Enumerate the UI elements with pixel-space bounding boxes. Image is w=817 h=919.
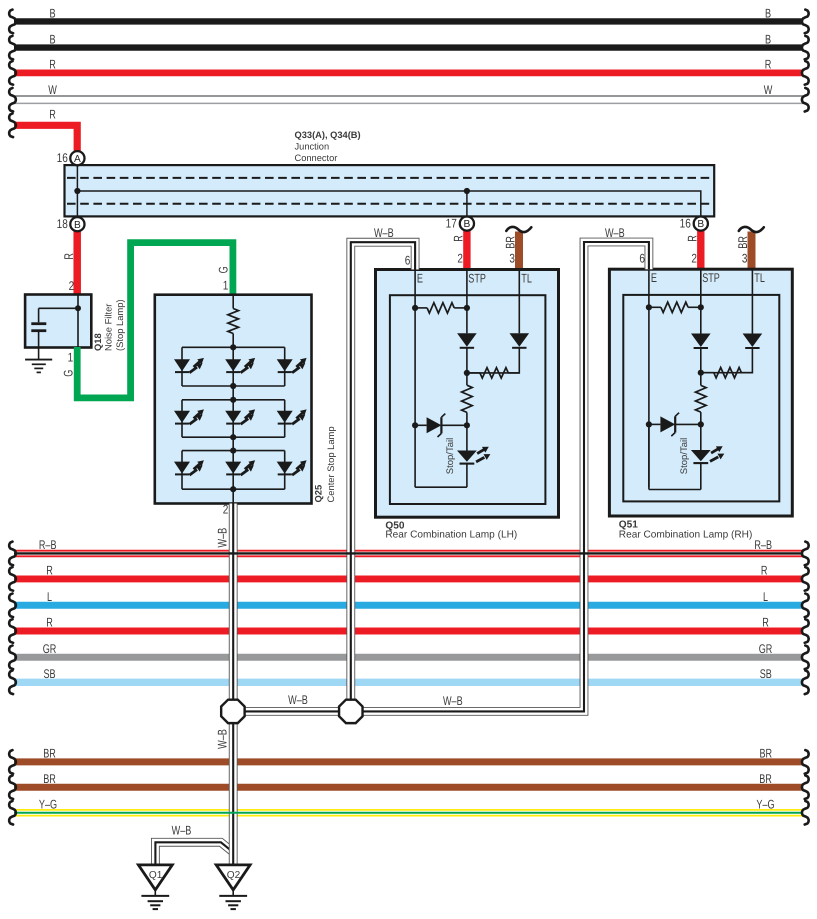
svg-text:R: R bbox=[62, 253, 76, 260]
svg-text:W: W bbox=[48, 83, 57, 97]
svg-text:Stop/Tail: Stop/Tail bbox=[679, 438, 690, 474]
svg-text:BR: BR bbox=[736, 236, 750, 249]
svg-text:BR: BR bbox=[760, 747, 773, 761]
svg-text:E: E bbox=[417, 271, 423, 285]
svg-text:3: 3 bbox=[509, 252, 515, 266]
svg-text:W–B: W–B bbox=[216, 528, 230, 548]
svg-text:R–B: R–B bbox=[39, 538, 57, 552]
svg-text:2: 2 bbox=[69, 279, 75, 293]
svg-text:Q18: Q18 bbox=[92, 333, 103, 351]
svg-text:16: 16 bbox=[680, 217, 691, 231]
svg-text:STP: STP bbox=[702, 271, 720, 285]
svg-text:R: R bbox=[762, 616, 769, 630]
svg-text:Q1: Q1 bbox=[149, 870, 163, 881]
svg-text:Y–G: Y–G bbox=[39, 797, 57, 811]
svg-text:Center Stop Lamp: Center Stop Lamp bbox=[325, 426, 336, 502]
svg-text:Connector: Connector bbox=[295, 153, 338, 163]
svg-text:R: R bbox=[49, 58, 56, 72]
svg-text:G: G bbox=[62, 370, 76, 377]
svg-text:TL: TL bbox=[521, 271, 532, 285]
svg-text:Rear Combination Lamp (LH): Rear Combination Lamp (LH) bbox=[385, 529, 517, 540]
svg-text:Noise Filter: Noise Filter bbox=[103, 304, 114, 351]
svg-text:6: 6 bbox=[639, 252, 645, 266]
svg-text:G: G bbox=[216, 266, 230, 273]
svg-text:R: R bbox=[761, 564, 768, 578]
svg-text:B: B bbox=[765, 7, 771, 21]
svg-text:R: R bbox=[685, 235, 699, 242]
svg-text:B: B bbox=[49, 33, 55, 47]
svg-text:Rear Combination Lamp (RH): Rear Combination Lamp (RH) bbox=[619, 529, 753, 540]
svg-text:Q25: Q25 bbox=[313, 485, 324, 503]
svg-text:GR: GR bbox=[759, 642, 773, 656]
svg-text:1: 1 bbox=[223, 279, 229, 293]
svg-text:BR: BR bbox=[43, 772, 56, 786]
svg-text:BR: BR bbox=[759, 772, 772, 786]
svg-text:R–B: R–B bbox=[754, 538, 772, 552]
svg-text:GR: GR bbox=[43, 642, 57, 656]
svg-text:1: 1 bbox=[68, 351, 74, 365]
svg-text:B: B bbox=[74, 220, 81, 231]
svg-text:L: L bbox=[763, 590, 768, 604]
svg-text:SB: SB bbox=[760, 667, 772, 681]
svg-text:B: B bbox=[464, 219, 471, 230]
svg-text:2: 2 bbox=[457, 252, 463, 266]
svg-text:W–B: W–B bbox=[172, 824, 192, 838]
svg-text:3: 3 bbox=[742, 252, 748, 266]
svg-text:L: L bbox=[47, 590, 52, 604]
svg-text:W–B: W–B bbox=[605, 226, 625, 240]
svg-text:R: R bbox=[765, 58, 772, 72]
svg-text:R: R bbox=[46, 564, 53, 578]
svg-text:(Stop Lamp): (Stop Lamp) bbox=[114, 299, 125, 351]
svg-text:SB: SB bbox=[43, 667, 55, 681]
svg-text:BR: BR bbox=[504, 236, 518, 249]
svg-text:W: W bbox=[764, 83, 773, 97]
svg-text:W–B: W–B bbox=[443, 694, 463, 708]
svg-text:R: R bbox=[451, 235, 465, 242]
svg-text:Stop/Tail: Stop/Tail bbox=[445, 438, 456, 474]
svg-text:W–B: W–B bbox=[374, 226, 394, 240]
svg-text:E: E bbox=[651, 271, 657, 285]
svg-text:BR: BR bbox=[43, 747, 56, 761]
svg-text:Q33(A), Q34(B): Q33(A), Q34(B) bbox=[295, 130, 361, 140]
svg-text:Junction: Junction bbox=[295, 142, 330, 152]
svg-text:17: 17 bbox=[446, 217, 457, 231]
svg-text:TL: TL bbox=[754, 271, 765, 285]
svg-text:6: 6 bbox=[405, 254, 411, 268]
svg-text:W–B: W–B bbox=[288, 693, 308, 707]
svg-text:18: 18 bbox=[57, 217, 68, 231]
svg-text:Q2: Q2 bbox=[227, 870, 241, 881]
svg-text:R: R bbox=[49, 107, 56, 121]
svg-text:A: A bbox=[74, 154, 81, 165]
svg-text:B: B bbox=[49, 7, 55, 21]
svg-text:B: B bbox=[765, 33, 771, 47]
svg-text:Y–G: Y–G bbox=[756, 797, 774, 811]
svg-text:B: B bbox=[697, 219, 704, 230]
svg-text:W–B: W–B bbox=[216, 729, 230, 749]
svg-text:2: 2 bbox=[691, 252, 697, 266]
svg-text:R: R bbox=[46, 616, 53, 630]
svg-text:16: 16 bbox=[57, 151, 68, 165]
svg-text:STP: STP bbox=[468, 271, 486, 285]
